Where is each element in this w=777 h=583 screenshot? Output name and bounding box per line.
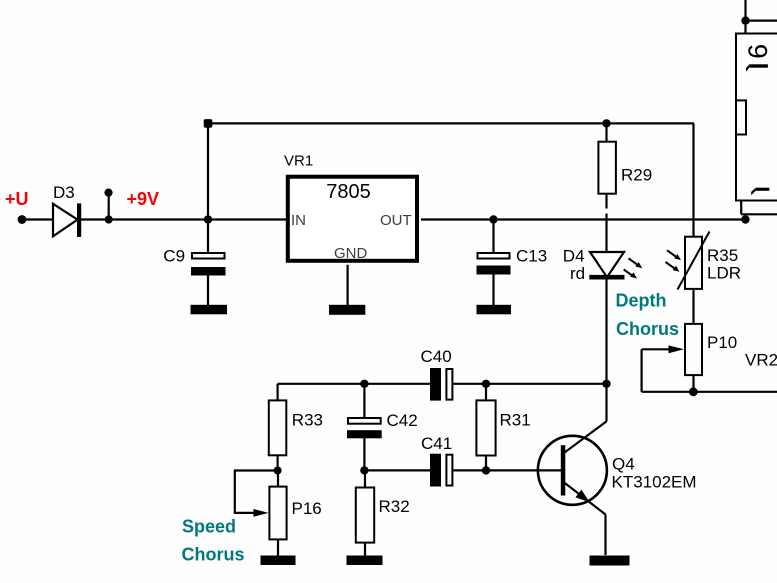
svg-text:7805: 7805 — [326, 181, 371, 203]
svg-text:LDR: LDR — [707, 264, 741, 283]
svg-text:R32: R32 — [379, 497, 410, 516]
svg-text:Speed: Speed — [182, 517, 236, 537]
svg-text:+U: +U — [5, 189, 29, 209]
svg-text:C13: C13 — [516, 247, 547, 266]
svg-text:Q4: Q4 — [612, 455, 635, 474]
svg-text:C41: C41 — [421, 434, 452, 453]
svg-text:GND: GND — [334, 245, 368, 262]
svg-text:R29: R29 — [621, 165, 652, 184]
svg-text:R31: R31 — [500, 411, 531, 430]
svg-text:Depth: Depth — [616, 291, 667, 311]
svg-text:C40: C40 — [421, 347, 452, 366]
svg-text:+9V: +9V — [127, 189, 160, 209]
svg-text:R35: R35 — [707, 246, 738, 265]
svg-text:P10: P10 — [707, 333, 737, 352]
svg-text:Chorus: Chorus — [182, 545, 245, 565]
svg-text:R33: R33 — [292, 411, 323, 430]
svg-text:VR2: VR2 — [745, 351, 777, 370]
svg-text:P16: P16 — [292, 499, 322, 518]
svg-text:IN: IN — [291, 212, 306, 229]
svg-text:6: 6 — [743, 44, 773, 59]
svg-text:Chorus: Chorus — [616, 319, 679, 339]
svg-text:C42: C42 — [387, 411, 418, 430]
svg-text:C9: C9 — [163, 247, 185, 266]
svg-text:rd: rd — [570, 264, 585, 283]
svg-text:VR1: VR1 — [284, 153, 313, 170]
svg-text:D3: D3 — [53, 183, 75, 202]
svg-text:OUT: OUT — [380, 212, 412, 229]
svg-text:D4: D4 — [563, 247, 585, 266]
svg-text:KT3102EM: KT3102EM — [612, 473, 697, 492]
